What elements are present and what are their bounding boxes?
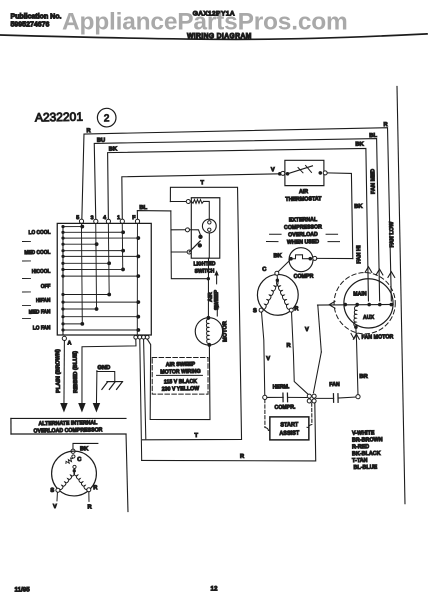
air sweep note box xyxy=(152,356,209,395)
fan med connector xyxy=(376,269,383,275)
compressor motor xyxy=(257,274,299,316)
alternate winding node xyxy=(73,469,76,472)
alternate terminal R xyxy=(87,488,91,492)
wire V fan side 2 xyxy=(313,352,322,393)
air sweep arrow 2 head xyxy=(215,302,219,307)
compressor terminal C xyxy=(275,271,279,275)
compressor C stub xyxy=(276,275,278,279)
start assist hook left xyxy=(265,427,270,430)
selector row 11 contact dot xyxy=(136,300,140,304)
svg-text:R: R xyxy=(87,504,92,510)
svg-text:AppliancePartsPros.com: AppliancePartsPros.com xyxy=(62,9,348,36)
fan motor label arrow xyxy=(351,333,357,339)
selector position tick xyxy=(22,277,30,279)
wire cluster to fan cap xyxy=(316,397,333,400)
svg-text:MED COOL: MED COOL xyxy=(24,249,50,256)
ground bar xyxy=(107,380,123,382)
selector column 1 xyxy=(122,223,123,269)
svg-text:4: 4 xyxy=(103,215,106,221)
lighted switch resistor xyxy=(191,199,203,203)
selector terminal 5 xyxy=(79,219,83,223)
svg-text:115 V BLACK: 115 V BLACK xyxy=(164,379,197,386)
svg-text:T: T xyxy=(194,433,198,439)
fan aux bottom node xyxy=(354,325,358,329)
wire V from S xyxy=(262,312,265,395)
selector row 1 bus dot xyxy=(61,225,64,228)
fan motor terminal bar xyxy=(318,304,394,306)
selector row 1 xyxy=(63,225,82,228)
selector row 11 xyxy=(63,301,138,304)
wire to switch terminal 1 xyxy=(170,200,186,203)
svg-text:BR-BROWN: BR-BROWN xyxy=(352,437,383,444)
lamp contact top xyxy=(208,221,211,224)
switch contact a xyxy=(198,235,202,239)
svg-text:C: C xyxy=(77,457,82,463)
wire T return riser xyxy=(144,339,146,439)
selector row 12 xyxy=(63,308,97,309)
selector column 4 xyxy=(108,223,110,294)
svg-text:V-WHITE: V-WHITE xyxy=(352,430,375,437)
compressor terminal S xyxy=(259,308,263,312)
note dash right 1 xyxy=(326,233,338,235)
svg-text:R: R xyxy=(240,454,245,460)
svg-text:BK: BK xyxy=(355,142,364,148)
selector terminal A xyxy=(62,336,66,340)
selector position tick xyxy=(22,304,30,306)
lighted switch terminal 3 xyxy=(187,250,191,254)
svg-text:MOTOR WIRING: MOTOR WIRING xyxy=(160,369,200,376)
note dash left 2 xyxy=(266,240,278,243)
fan low connector xyxy=(388,272,395,278)
svg-text:GND: GND xyxy=(97,365,110,371)
fan cap terminal BR xyxy=(356,395,360,399)
svg-text:V: V xyxy=(266,356,270,362)
selector terminal 4 xyxy=(106,219,110,223)
svg-text:C: C xyxy=(262,267,267,273)
svg-text:V: V xyxy=(305,327,309,333)
wire herm left xyxy=(267,396,283,398)
alternate stub mid xyxy=(73,469,75,471)
svg-text:MOTOR: MOTOR xyxy=(222,321,228,342)
wire overload to BK xyxy=(317,258,353,259)
selector row 5 xyxy=(63,250,123,252)
alternate box bottom xyxy=(11,432,126,436)
svg-text:FAN HI: FAN HI xyxy=(356,245,362,264)
wire switch left leg xyxy=(170,210,208,279)
selector row 11 bus dot xyxy=(61,300,64,303)
motor bottom node xyxy=(207,343,211,347)
selector row 12 contact dot xyxy=(95,307,99,311)
svg-text:START: START xyxy=(280,422,299,429)
svg-text:COMPRESSOR: COMPRESSOR xyxy=(284,224,322,231)
alternate box top xyxy=(11,416,126,420)
svg-text:BL-BLUE: BL-BLUE xyxy=(353,464,377,471)
ground hatch 1 xyxy=(102,382,108,389)
selector column 5 xyxy=(81,223,84,324)
fan terminal xyxy=(389,303,393,307)
wire BR xyxy=(356,329,358,395)
lamp contact bottom xyxy=(208,228,211,231)
svg-text:MAIN: MAIN xyxy=(353,291,367,297)
fan motor xyxy=(343,278,393,328)
start assist lead right xyxy=(311,403,314,425)
wire T enclosure top xyxy=(138,186,242,441)
svg-text:5995274676: 5995274676 xyxy=(11,22,50,29)
svg-text:BK-BLACK: BK-BLACK xyxy=(352,451,382,458)
alternate BK stub xyxy=(73,443,98,449)
svg-text:FAN MED: FAN MED xyxy=(370,169,376,194)
fan bar connector xyxy=(329,301,335,308)
svg-text:V: V xyxy=(271,167,275,173)
selector row 15 xyxy=(63,329,138,332)
selector row 2 contact dot xyxy=(121,230,125,234)
lighted switch body xyxy=(190,197,221,258)
cluster terminal xyxy=(307,399,311,403)
selector terminal 3 xyxy=(94,219,98,223)
switch contact b xyxy=(198,243,202,247)
wire R return xyxy=(141,403,316,464)
selector row 7 contact dot xyxy=(107,261,111,265)
thermostat blade xyxy=(287,166,312,174)
air sweep motor xyxy=(195,317,223,345)
lamp bulb xyxy=(202,219,216,233)
selector bottom terminal 1 xyxy=(134,335,138,339)
wire BL to lighted switch xyxy=(137,210,171,221)
selector row 2 xyxy=(63,231,123,233)
svg-text:OVERLOAD COMPRESSOR: OVERLOAD COMPRESSOR xyxy=(33,427,102,434)
selector position tick xyxy=(22,317,30,319)
alternate terminal BK xyxy=(71,449,75,453)
svg-text:ALTERNATE INTERNAL: ALTERNATE INTERNAL xyxy=(38,420,98,427)
selector row 7 bus dot xyxy=(61,262,64,265)
overload node right xyxy=(308,257,312,261)
svg-text:ASSIST: ASSIST xyxy=(279,430,299,437)
svg-text:RIBBED (BLUE): RIBBED (BLUE) xyxy=(73,351,80,393)
selector switch S1 body xyxy=(55,222,153,337)
selector row 13 bus dot xyxy=(61,315,64,318)
svg-text:BK: BK xyxy=(109,146,118,152)
selector row 15 bus dot xyxy=(61,328,64,331)
selector terminal F xyxy=(135,219,139,223)
fan capacitor xyxy=(333,394,338,403)
selector column F xyxy=(135,223,139,335)
svg-text:R: R xyxy=(286,343,291,349)
wire T to thermostat xyxy=(122,174,281,221)
svg-text:R: R xyxy=(294,306,299,312)
selector row 8 bus dot xyxy=(61,268,64,271)
selector bottom terminal 2 xyxy=(138,335,142,339)
overload element xyxy=(291,255,310,259)
wire R long right vertical xyxy=(397,86,405,503)
selector row 10 contact dot xyxy=(107,293,111,297)
selector row 2 bus dot xyxy=(61,231,64,234)
selector row 9 bus dot xyxy=(61,274,64,277)
wire to switch terminal 2 xyxy=(171,229,186,231)
selector row 7 xyxy=(63,262,109,264)
svg-text:HICOOL: HICOOL xyxy=(32,268,51,275)
lighted switch terminal 1 xyxy=(186,199,190,203)
svg-text:HERM.: HERM. xyxy=(273,384,290,391)
alternate winding S xyxy=(59,472,75,490)
herm capacitor xyxy=(283,393,288,402)
selector position tick xyxy=(22,240,30,242)
svg-text:COMPR: COMPR xyxy=(294,273,314,280)
compressor overload xyxy=(289,247,313,271)
thermostat terminal right xyxy=(323,171,327,175)
selector row 14 bus dot xyxy=(61,322,64,325)
cluster terminal xyxy=(312,394,316,398)
svg-text:EXTERNAL: EXTERNAL xyxy=(289,217,318,224)
compressor winding S xyxy=(262,281,279,309)
svg-text:R: R xyxy=(93,485,98,491)
selector row 1 contact dot xyxy=(80,225,84,229)
selector row 4 xyxy=(63,244,97,245)
selector row 5 contact dot xyxy=(121,249,125,253)
alternate R lead xyxy=(88,492,90,501)
svg-text:BK: BK xyxy=(80,446,89,452)
svg-text:A232201: A232201 xyxy=(35,110,84,125)
fan motor shroud xyxy=(334,272,396,334)
selector row 14 contact dot xyxy=(80,322,84,326)
fan terminal xyxy=(343,303,347,307)
svg-text:S: S xyxy=(50,488,54,494)
thermostat contact left xyxy=(286,172,290,176)
svg-text:1: 1 xyxy=(117,215,120,221)
selector row 15 contact dot xyxy=(136,328,140,332)
air sweep motor coil xyxy=(206,319,209,343)
selector row 9 xyxy=(63,275,138,278)
wire herm right xyxy=(288,396,307,399)
wire resistor to lamp xyxy=(203,201,209,219)
junction switch leg xyxy=(207,277,210,280)
ground hatch 2 xyxy=(109,382,115,389)
svg-text:SWITCH: SWITCH xyxy=(195,268,215,275)
svg-text:A: A xyxy=(67,340,71,346)
wire ribbed blue xyxy=(81,339,137,402)
svg-text:LO FAN: LO FAN xyxy=(33,325,51,332)
thermostat terminal left xyxy=(281,171,285,175)
air thermostat box xyxy=(284,160,324,187)
selector row 3 bus dot xyxy=(61,236,64,239)
thermostat cross xyxy=(306,165,312,172)
selector terminal 1 xyxy=(120,219,124,223)
start assist hook right xyxy=(307,424,312,427)
svg-text:FAN MOTOR: FAN MOTOR xyxy=(361,334,393,341)
selector row 12 bus dot xyxy=(61,307,64,310)
wire R return riser xyxy=(140,339,142,460)
selector row 3 contact dot xyxy=(136,236,140,240)
wire plain brown xyxy=(63,340,66,402)
svg-text:THERMOSTAT: THERMOSTAT xyxy=(285,196,322,203)
alternate S lead xyxy=(56,492,59,501)
wire BK top run xyxy=(107,148,368,305)
note dash right 2 xyxy=(328,240,340,242)
svg-text:Publication No.: Publication No. xyxy=(11,13,62,20)
switch blade xyxy=(189,241,200,252)
svg-text:11/95: 11/95 xyxy=(15,587,31,594)
wire lamp to box bottom xyxy=(208,233,211,258)
svg-text:T-TAN: T-TAN xyxy=(352,458,368,465)
selector row 14 xyxy=(63,323,82,326)
svg-text:WHEN USED: WHEN USED xyxy=(287,239,319,246)
fan aux winding xyxy=(353,306,357,326)
svg-text:2: 2 xyxy=(104,113,110,124)
selector row 9 contact dot xyxy=(136,274,140,278)
overload node left xyxy=(289,257,293,261)
alternate contact mid xyxy=(73,465,76,468)
alternate compressor motor xyxy=(51,451,97,497)
alternate winding R xyxy=(74,471,88,489)
selector row 4 contact dot xyxy=(95,242,99,246)
start assist box xyxy=(269,416,309,440)
BR crossing arrow xyxy=(353,334,359,339)
overload terminal xyxy=(313,256,317,260)
cluster terminal xyxy=(312,399,316,403)
header rule xyxy=(0,34,427,39)
svg-text:AIR SWEEP: AIR SWEEP xyxy=(166,362,196,369)
arrow plain brown xyxy=(60,403,68,413)
wire V fan side xyxy=(318,305,322,352)
note underline xyxy=(157,375,203,377)
selector row 6 xyxy=(63,255,138,258)
alternate terminal S xyxy=(56,488,60,492)
svg-text:OVERLOAD: OVERLOAD xyxy=(288,232,318,239)
wire R from compressor xyxy=(292,312,309,395)
svg-text:PLAIN (BROWN): PLAIN (BROWN) xyxy=(55,349,62,393)
selector row 13 contact dot xyxy=(136,315,140,319)
selector row 10 xyxy=(63,294,109,296)
wire BU top run xyxy=(94,139,379,306)
wire fan cap right xyxy=(338,397,356,398)
fan terminal xyxy=(378,303,382,307)
svg-text:MED FAN: MED FAN xyxy=(29,309,51,316)
fan terminal xyxy=(355,303,359,307)
selector bottom terminal 3 xyxy=(142,335,146,339)
svg-text:T: T xyxy=(200,180,204,186)
gnd bracket xyxy=(97,371,115,381)
selector row 10 bus dot xyxy=(61,293,64,296)
selector row 5 bus dot xyxy=(61,249,64,252)
svg-text:3: 3 xyxy=(91,215,94,221)
motor top node xyxy=(206,316,210,320)
svg-text:BK: BK xyxy=(273,253,282,259)
svg-text:LIGHTED: LIGHTED xyxy=(193,261,215,268)
svg-text:5: 5 xyxy=(76,215,79,221)
herm terminal xyxy=(263,395,267,399)
air sweep arrow 1 head xyxy=(214,270,218,275)
lighted switch terminal 2 xyxy=(185,228,189,232)
svg-text:FAN: FAN xyxy=(329,382,340,388)
svg-text:BK: BK xyxy=(354,204,363,210)
svg-text:12: 12 xyxy=(211,586,218,593)
svg-text:HIFAN: HIFAN xyxy=(36,297,51,304)
wire to switch terminal 3 xyxy=(171,251,187,254)
svg-text:AIR: AIR xyxy=(299,189,308,195)
svg-text:BU: BU xyxy=(97,138,105,144)
air sweep arrow 1 shaft xyxy=(215,274,217,284)
svg-text:BL: BL xyxy=(369,133,377,139)
note dash left 1 xyxy=(270,233,282,235)
selector position tick xyxy=(22,260,30,262)
thermostat contact right xyxy=(318,171,322,175)
fan hi connector xyxy=(365,267,372,273)
ground hatch 3 xyxy=(116,382,122,389)
arrow gnd xyxy=(93,403,101,413)
selector row 3 xyxy=(63,237,138,240)
svg-text:LO COOL: LO COOL xyxy=(28,229,50,236)
junction at thermostat input xyxy=(278,172,282,176)
wire BK thermostat drop xyxy=(327,172,353,259)
selector row 6 contact dot xyxy=(136,254,140,258)
svg-text:FAN LOW: FAN LOW xyxy=(389,221,395,248)
svg-text:OFF: OFF xyxy=(41,283,51,290)
svg-text:S: S xyxy=(253,308,257,314)
selector row 6 bus dot xyxy=(61,255,64,258)
selector row 13 xyxy=(63,315,138,318)
svg-text:BR: BR xyxy=(359,374,368,380)
selector row 8 xyxy=(63,268,123,270)
wire air sweep loop xyxy=(147,338,210,421)
svg-text:AUX: AUX xyxy=(363,315,375,321)
selector row 4 bus dot xyxy=(61,243,64,246)
wire R top run xyxy=(80,128,391,307)
svg-text:COMPR.: COMPR. xyxy=(274,404,296,411)
thermostat cross 2 xyxy=(298,167,303,172)
selector column 3 xyxy=(95,223,97,309)
compressor winding R xyxy=(276,281,290,310)
svg-text:BL: BL xyxy=(139,205,147,211)
arrow ribbed blue xyxy=(78,403,86,413)
svg-text:230 V YELLOW: 230 V YELLOW xyxy=(162,386,200,393)
selector bus xyxy=(61,227,65,335)
compressor terminal R xyxy=(289,308,293,312)
selector bottom terminal 4 xyxy=(145,335,149,339)
compressor winding node xyxy=(276,278,279,281)
alternate overload element xyxy=(66,458,73,464)
revision circle xyxy=(97,108,116,127)
fan terminal xyxy=(367,303,371,307)
alternate contact top xyxy=(72,455,75,458)
start assist lead left xyxy=(263,399,266,427)
svg-text:V: V xyxy=(53,504,57,510)
selector position tick xyxy=(22,291,30,293)
wire terminal2 into box xyxy=(189,230,200,235)
wire lighted switch to motor xyxy=(207,258,209,318)
cluster terminal xyxy=(307,394,311,398)
wire overload to compressor C xyxy=(278,260,290,272)
svg-text:R-RED: R-RED xyxy=(352,444,369,451)
wire gnd drop xyxy=(96,371,98,403)
alternate box left xyxy=(10,418,12,434)
alternate enclosure right edge xyxy=(126,434,128,512)
selector row 8 contact dot xyxy=(121,268,125,272)
air sweep arrow 2 shaft xyxy=(216,306,218,317)
